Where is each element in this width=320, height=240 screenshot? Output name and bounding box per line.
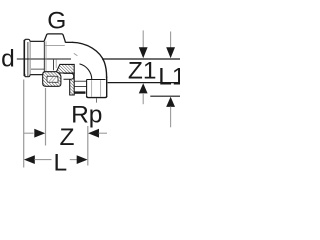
press socket bore line bottom bbox=[31, 68, 44, 70]
bend outer arc bbox=[72, 42, 107, 78]
dimension Z1 bottom arrow bbox=[139, 83, 148, 93]
press socket outer wall top bbox=[30, 40, 44, 42]
outlet hex facet line 1 bbox=[91, 80, 93, 97]
elbow inlet inner line 1 bbox=[74, 80, 86, 82]
union nut G outline bbox=[44, 34, 65, 43]
svg-text:Z1: Z1 bbox=[128, 57, 157, 84]
dimension Z right arrow bbox=[88, 129, 99, 138]
outlet hex left edge bbox=[86, 80, 88, 98]
extension line V1 (press end) bbox=[23, 80, 25, 168]
svg-text:Z: Z bbox=[60, 124, 75, 151]
elbow bottom band bbox=[74, 91, 85, 93]
dimension L left arrow bbox=[24, 155, 35, 164]
svg-text:G: G bbox=[47, 7, 66, 34]
section column (elbow inlet wall) hatched bbox=[70, 73, 75, 95]
section trough (nut/seal cut) hatched bbox=[43, 72, 61, 87]
joint line 2 socket/nut bbox=[45, 41, 47, 71]
socket tail edge 2 in nut bbox=[55, 60, 57, 68]
section trough white pocket bbox=[47, 76, 58, 82]
outlet hex right edge bbox=[106, 77, 108, 97]
outlet hex facet line 2 bbox=[100, 80, 102, 97]
elbow inlet o-ring groove bbox=[64, 73, 74, 79]
svg-text:L1: L1 bbox=[158, 64, 180, 91]
seal pocket lines bbox=[48, 76, 56, 82]
dimension L1 top arrow bbox=[170, 32, 172, 48]
dimension L1 bottom arrow bbox=[166, 97, 175, 107]
socket tail edge in nut bbox=[53, 60, 55, 71]
extension line V3 (outlet) bbox=[87, 126, 89, 166]
press socket mouth inner edge 2 bbox=[29, 42, 31, 75]
dimension Z left arrow bbox=[24, 132, 34, 134]
dimension ref line axis right H1 bbox=[102, 58, 180, 60]
joint line socket/nut bbox=[43, 41, 45, 71]
union nut facet line bbox=[45, 45, 65, 47]
svg-text:L: L bbox=[54, 149, 68, 176]
svg-text:Rp: Rp bbox=[71, 102, 102, 129]
press socket bead outline bbox=[25, 39, 30, 76]
press socket mouth face bbox=[23, 40, 25, 76]
dimension ref line Z1 bottom H2 bbox=[108, 82, 180, 84]
svg-text:d: d bbox=[1, 45, 15, 72]
outlet hex bottom edge bbox=[87, 96, 107, 98]
dimension ref line L1 bottom H3 bbox=[150, 95, 180, 97]
node axis centerline (horizontal run) bbox=[17, 58, 71, 60]
extension line V2 (insertion depth) bbox=[45, 88, 47, 146]
bend centerline dash bbox=[74, 53, 78, 55]
outlet axis tick bbox=[96, 98, 98, 102]
section hump (elbow inlet cut) hatched bbox=[56, 64, 74, 73]
dimension Z1 top arrow bbox=[142, 30, 144, 47]
bend inner arc bbox=[80, 64, 92, 80]
press socket mouth inner edge bbox=[27, 42, 29, 76]
outlet hex shoulder bbox=[87, 79, 106, 81]
dimension L right arrow bbox=[70, 159, 78, 161]
elbow inlet inner line 2 bbox=[74, 85, 86, 87]
pipe top edge between nut and bend bbox=[65, 41, 72, 43]
press socket outer wall bottom bbox=[30, 74, 44, 76]
